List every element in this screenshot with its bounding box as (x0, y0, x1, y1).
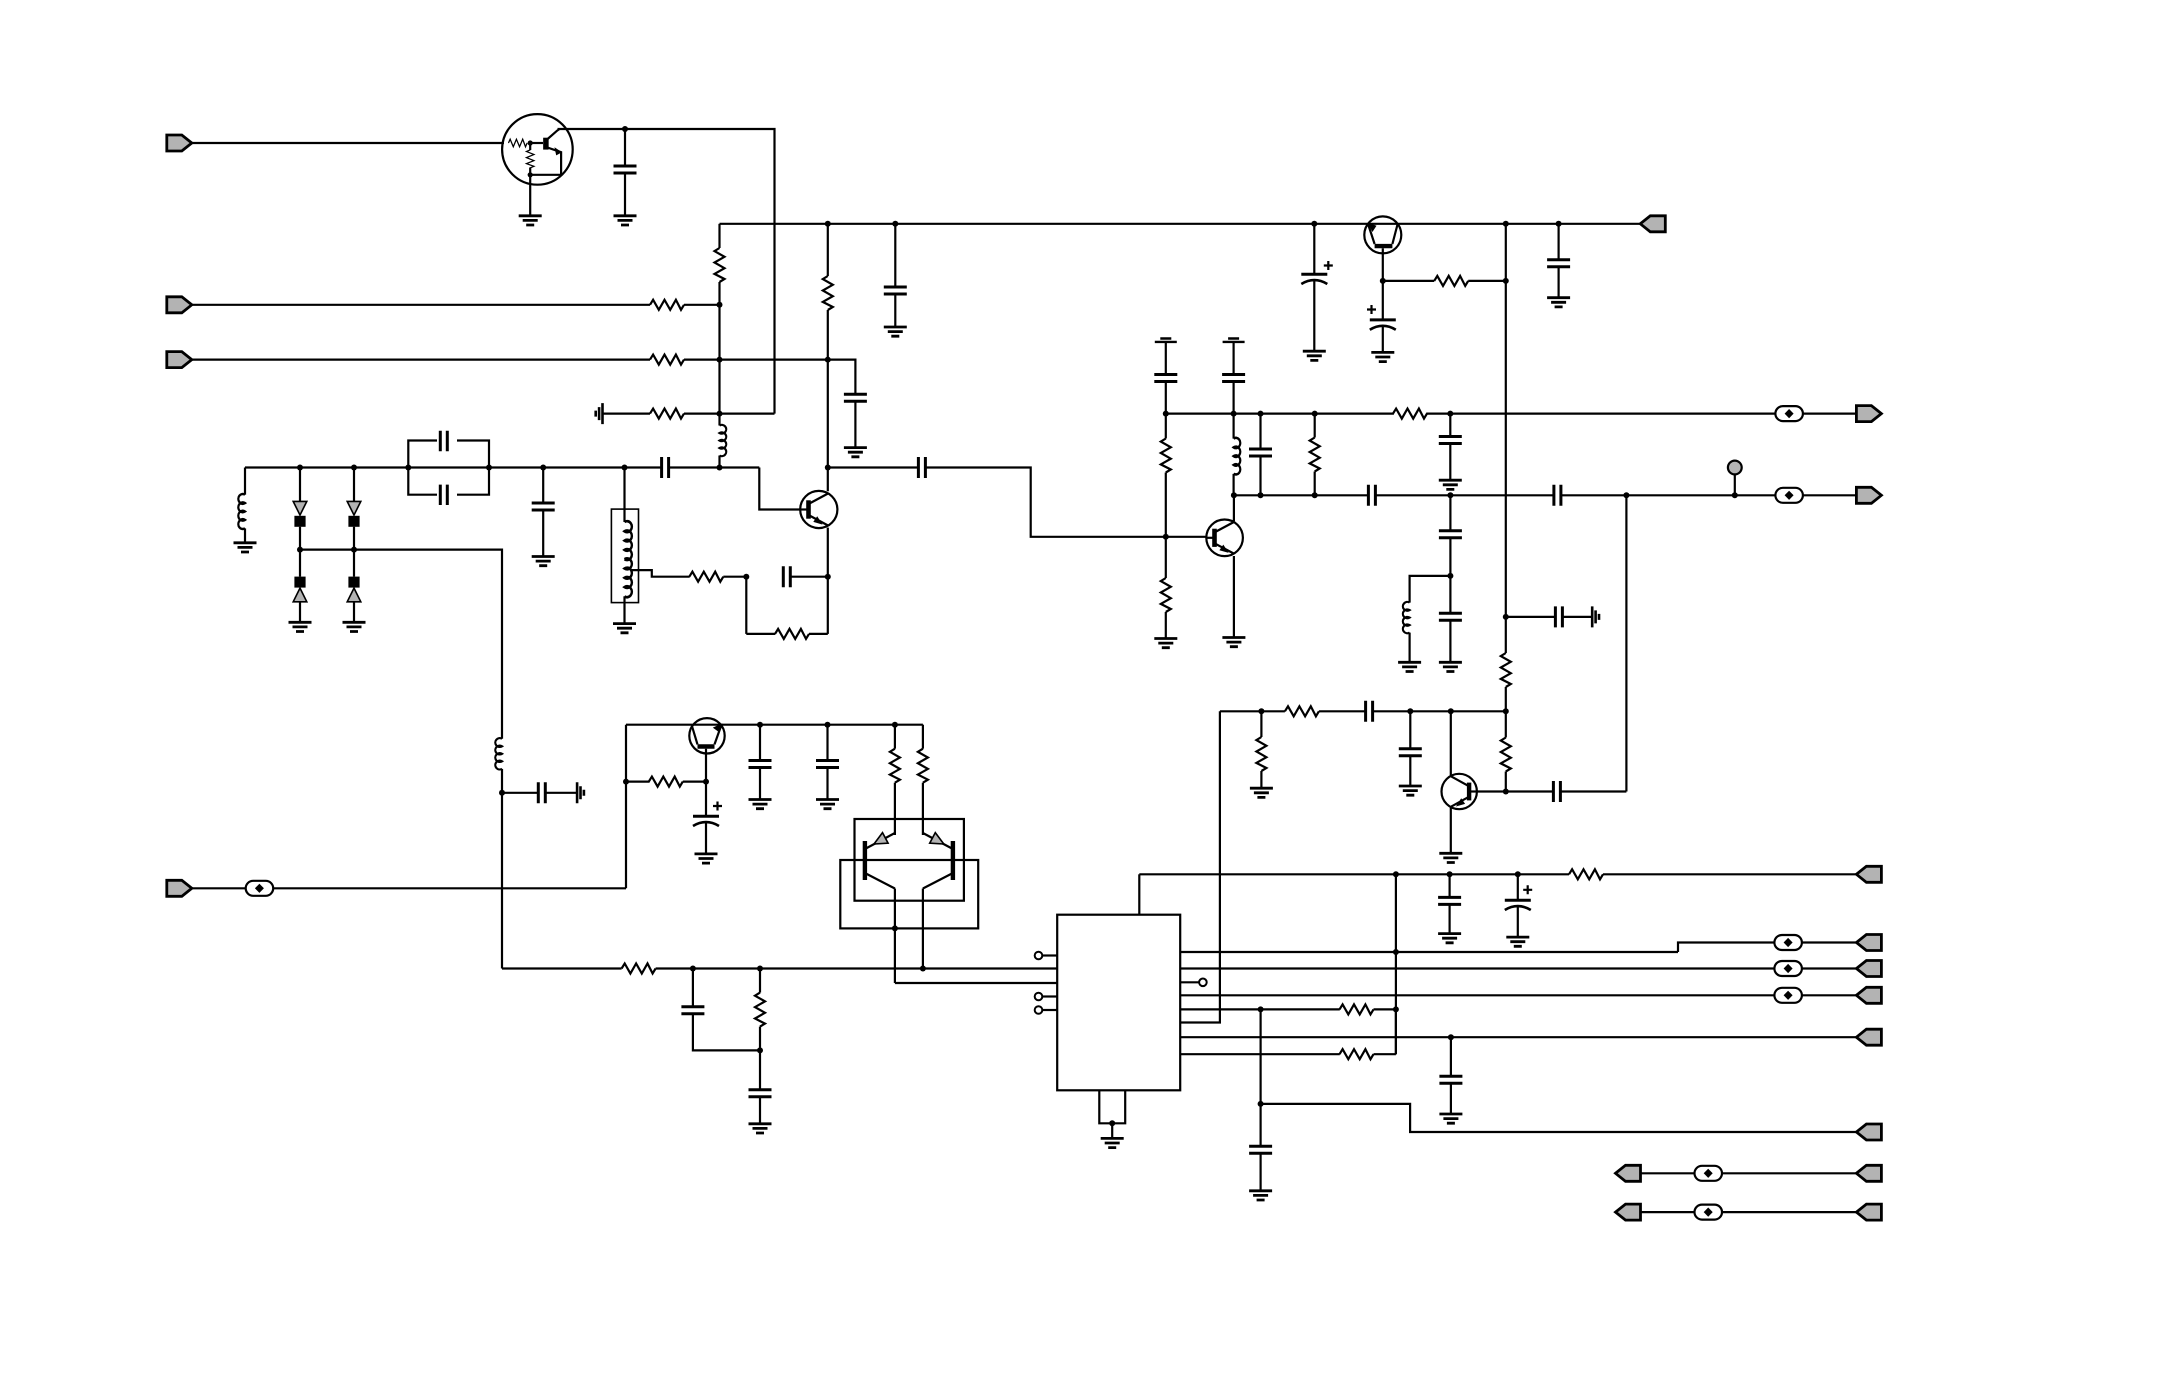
ferrite bead FB3 (246, 881, 274, 896)
transistor Q3 (NPN) (1206, 520, 1243, 557)
junction bus/main line (717, 465, 723, 471)
wire feedback RC left leg (745, 577, 747, 634)
wire to C9 (542, 468, 544, 504)
filter box (parallel capacitors C7/C8) (408, 441, 489, 495)
connector P17 (bottom row 2 right) (1856, 1204, 1881, 1220)
wire stack B to ground (353, 602, 355, 623)
capacitor C10 (series feedback) (783, 566, 790, 587)
wire R2 to bus (684, 304, 720, 306)
inductor L2 (input shunt) (238, 494, 245, 529)
resistor R2 (650, 300, 684, 310)
wire C12 to Q3 base (925, 468, 1206, 537)
junction tank inductor (622, 465, 628, 471)
wire Q5 base to divider (1477, 790, 1506, 792)
ground (stack B) (343, 622, 366, 631)
junction row A / C13 branch (1258, 411, 1264, 417)
wire Q1 emitter to ground (529, 185, 531, 216)
wire R12 to ground (1165, 612, 1167, 639)
junction row A / R9 branch (1312, 411, 1318, 417)
wire row3 bus to Q2 collector branch (720, 359, 828, 361)
wire C34 to ground (1448, 904, 1450, 933)
bias line to IC (656, 967, 1058, 969)
wire bias to R22 (759, 969, 761, 993)
wire Q6 collector down (705, 749, 707, 782)
connector P6 (output row A) (1856, 406, 1881, 422)
capacitor C31 (series) (538, 782, 545, 803)
polarized capacitor C22 (1370, 320, 1396, 330)
transistor Q1 (digital transistor with built-in resistors) (502, 114, 573, 185)
capacitor C5 (884, 287, 907, 294)
ground (R12) (1154, 639, 1177, 648)
resistor R17 (row series) (1285, 706, 1319, 716)
wire row A to R11 (1165, 414, 1167, 439)
resistor R23 (line 5) (1340, 1004, 1374, 1014)
ferrite bead FB8 (1695, 1205, 1723, 1220)
connector P4 (LO input) (167, 880, 192, 896)
wire C24 to ground stub (1562, 616, 1592, 618)
test point TP1 (1734, 475, 1736, 496)
connector P2 (input row 2) (167, 297, 192, 313)
IC bottom pins and ground (1099, 1090, 1125, 1123)
capacitor C26 (1399, 749, 1422, 756)
wire Q3 collector (1233, 495, 1235, 521)
wire row to C26 (1409, 711, 1411, 748)
wire R23 to V1 (1374, 1008, 1396, 1010)
capacitor C8 (bottom of box) (440, 485, 447, 505)
signal ground stub (C24) (1592, 606, 1599, 627)
wire to diode stack A (299, 468, 301, 502)
ferrite bead FB2 (row B) (1775, 488, 1803, 503)
capacitor C29 (749, 761, 772, 768)
ground (C28) (695, 854, 718, 863)
dual transistor outline box 1 (855, 819, 964, 901)
junction C13/row B (1258, 492, 1264, 498)
IC left pin 4 (inverted) (1043, 995, 1058, 997)
wire R22 to RC node (759, 1027, 761, 1051)
wire tuning node to C31 (502, 792, 538, 794)
wire C15 to row A (1165, 382, 1167, 414)
connector P15 (bottom row 1 right) (1856, 1165, 1881, 1181)
wire C33 to ground (759, 1097, 761, 1124)
wire to C1 (624, 129, 626, 166)
capacitor C34 (1438, 897, 1461, 904)
rail symbol (decoupling branch 1) (1155, 339, 1177, 342)
wire row A to C14 (1449, 414, 1451, 437)
junction rail/Q2 collector (825, 221, 831, 227)
transistor Q7b (right of pair) (923, 833, 953, 889)
ground (IC) (1101, 1138, 1124, 1147)
wire C38 to ground (1517, 907, 1519, 938)
ground (C1) (614, 216, 637, 225)
capacitor C14 (1439, 437, 1462, 444)
IC left pin 1 (inverted) (1043, 954, 1058, 956)
capacitor C15 (1154, 375, 1177, 382)
wire C10 to emitter (790, 576, 828, 578)
wire divider vertical upper (1505, 224, 1507, 281)
resistor R7 (feedback) (689, 572, 723, 582)
junction stack B tune node (351, 547, 357, 553)
wire bus middle (718, 282, 720, 426)
wire to R19 (894, 725, 896, 749)
resistor R12 (Q3 base bias lower) (1161, 578, 1171, 612)
resistor R19 (diff pair left) (890, 749, 900, 783)
ground (C5) (884, 327, 907, 336)
junction Q6 collector node (703, 779, 709, 785)
wire Q2 emitter (827, 528, 829, 577)
wire Q4 collector (1382, 248, 1384, 281)
ground (C38) (1506, 937, 1529, 946)
IC top pin wire (1138, 874, 1140, 914)
IC top net line (1139, 873, 1569, 875)
wire Q5 emitter to ground (1450, 808, 1452, 854)
diode D2 (varactor pair lower, stack A) (293, 577, 307, 602)
wire RC node to C33 (759, 1050, 761, 1089)
wire bias to C32 (692, 969, 694, 1007)
inductor L4 (1403, 602, 1410, 633)
junction line5/V1 (1393, 1006, 1399, 1012)
resistor R15 (divider lower) (1501, 738, 1511, 772)
wire rail symbol to C16 (1232, 342, 1234, 375)
ground (C34) (1438, 934, 1461, 943)
capacitor C9 (532, 503, 555, 510)
wire C37 node down (1259, 1104, 1261, 1146)
junction top net/V1 (1393, 871, 1399, 877)
polarized capacitor C6 (1301, 274, 1327, 284)
wire base node to R18 (626, 780, 650, 782)
connector P9 (1856, 935, 1881, 951)
junction rail/regulator divider (1503, 221, 1509, 227)
diode D4 (varactor pair lower, stack B) (347, 577, 361, 602)
junction Q3 collector/row B (1231, 492, 1237, 498)
resistor R10 (row A series) (1393, 409, 1427, 419)
capacitor C30 (816, 761, 839, 768)
wire P1 to Q1 base (192, 142, 504, 144)
wire rail to C6 (1313, 224, 1315, 274)
connector P12 (1856, 1029, 1881, 1045)
junction row A / C14 branch (1447, 411, 1453, 417)
capacitor C25 (row series) (1366, 701, 1373, 722)
wire C29 to ground (759, 768, 761, 800)
junction stack A tune node (297, 547, 303, 553)
wire P16 to FB8 (1641, 1211, 1695, 1213)
capacitor C36 (1439, 1076, 1462, 1083)
capacitor C4 (844, 394, 867, 401)
inductor L3 (Q3 collector load) (1234, 438, 1241, 475)
capacitor C16 (1222, 375, 1245, 382)
wire rail to C23 (1557, 224, 1559, 260)
wire to C29 (759, 725, 761, 761)
capacitor C32 (681, 1007, 704, 1014)
IC left pin 5 (inverted) (1043, 1009, 1058, 1011)
ground (C23) (1547, 298, 1570, 307)
resistor R21 (bias series) (622, 964, 656, 974)
wire Q1 collector node (558, 129, 775, 414)
bias line from tuning node (501, 793, 503, 969)
wire to tank inductor (623, 468, 625, 523)
wire row A to L3 (1232, 414, 1234, 439)
wire T1 bottom to ground (623, 596, 625, 623)
wire to Q2 base corner (759, 468, 800, 510)
ground (R16) (1250, 788, 1273, 797)
junction rail/C6 electrolytic (1311, 221, 1317, 227)
ground (Q1 emitter) (519, 216, 542, 225)
wire R13 to feedback vertical (1468, 280, 1506, 282)
junction Q7b/bias line (920, 966, 926, 972)
junction Q6 base resistor node (623, 779, 629, 785)
inductor L5 (tuning feed) (495, 738, 502, 769)
diode D1 (varactor pair upper, stack A) (293, 501, 307, 526)
wire P4 to FB3 (192, 887, 246, 889)
capacitor C12 (series coupling) (918, 457, 925, 478)
inductor L1 (bus) (720, 425, 727, 456)
junction node C1 top (622, 126, 628, 132)
ground (C6) (1303, 351, 1326, 360)
wire R6 to Q2 (827, 310, 829, 491)
resistor R20 (diff pair right) (918, 749, 928, 783)
ground (C29) (749, 800, 772, 809)
wire to R8 (746, 633, 775, 635)
wire FB1 to connector (1803, 413, 1857, 415)
junction Q6 line / C30 (825, 722, 831, 728)
wire P3 to R3 (192, 359, 650, 361)
wire Q2 collector to rail (827, 224, 829, 276)
wire R4 to bus (684, 413, 720, 415)
IC pin line 6 (y1022.5) (1180, 711, 1220, 1022)
tuning line to oscillator (300, 550, 502, 739)
wire L5 to tuning cap node (501, 769, 503, 793)
junction top net/C38 electrolytic (1515, 871, 1521, 877)
signal ground stub row 4 (596, 403, 603, 424)
wire FB6 to connector (1802, 994, 1857, 996)
capacitor C11 (series, main line) (662, 457, 669, 478)
junction line5/C35 branch (1258, 1006, 1264, 1012)
wire Q7a collector to IC pin (895, 982, 1057, 984)
junction tuning cap node (499, 790, 505, 796)
wire row4 to feedback vertical (720, 413, 775, 415)
wire C32 to RC node (693, 1014, 760, 1051)
junction C37 node (1258, 1101, 1264, 1107)
inductor T1 (shielded tank coil) (611, 509, 638, 602)
signal ground stub (C31) (577, 782, 584, 803)
wire LO corner up (625, 725, 627, 889)
connector P10 (1856, 961, 1881, 977)
wire stack A junction to D2 (299, 550, 301, 577)
resistor R8 (emitter degeneration) (775, 629, 809, 639)
wire Q2 collector output line (828, 466, 919, 468)
capacitor C20 (1439, 531, 1462, 538)
ground (C30) (816, 800, 839, 809)
capacitor C21 (1439, 613, 1462, 620)
junction row/C26 branch (1407, 708, 1413, 714)
transistor Q5 (NPN, mirrored) (1442, 774, 1477, 809)
resistor R9 (1310, 438, 1320, 472)
junction diode stack A (297, 465, 303, 471)
wire Q7a collector down (894, 889, 896, 984)
resistor R4 (650, 409, 684, 419)
wire C13 to row B (1259, 456, 1261, 495)
wire top net to C38 (1517, 874, 1519, 900)
resistor R16 (Q5 collector load) (1256, 737, 1266, 771)
transistor Q2 (NPN) (800, 491, 837, 528)
junction row3/bus (717, 357, 723, 363)
capacitor C18 (series, row B) (1554, 485, 1561, 506)
resistor R18 (Q6 base) (649, 777, 683, 787)
wire C22 to ground (1382, 326, 1384, 352)
transistor Q6 (PNP oscillator) (689, 718, 724, 753)
wire row A to C13 (1259, 414, 1261, 449)
IC right pin 3 (inverted) (1180, 981, 1199, 983)
capacitor C17 (series, row B) (1368, 485, 1375, 506)
ferrite bead FB7 (1695, 1166, 1723, 1181)
junction row A start (1163, 411, 1169, 417)
capacitor C24 (series) (1555, 606, 1562, 627)
junction collector/output line (825, 465, 831, 471)
wire C31 to ground stub (545, 792, 577, 794)
resistor R11 (Q3 base bias upper) (1161, 439, 1171, 473)
wire to C24 (1506, 616, 1556, 618)
wire base node to C27 (1506, 790, 1554, 792)
resistor R24 (line 8) (1340, 1049, 1374, 1059)
wire line7 to C36 (1450, 1037, 1452, 1076)
wire C30 to ground (826, 768, 828, 800)
wire R16 to ground (1260, 771, 1262, 788)
ferrite bead FB1 (row A) (1775, 406, 1803, 421)
resistor R14 (divider upper) (1501, 653, 1511, 687)
ferrite bead FB4 (1774, 935, 1802, 950)
IC pin line 1 (y952) (1180, 951, 1678, 953)
ground (L4) (1398, 662, 1421, 671)
wire left corner down (244, 468, 246, 495)
ground (C9) (532, 557, 555, 566)
junction row B / test point (1732, 492, 1738, 498)
capacitor C33 (749, 1090, 772, 1097)
wire FB8 to P17 (1722, 1211, 1856, 1213)
wire ground stub to R4 (603, 413, 651, 415)
wire C20 to node (1449, 538, 1451, 576)
resistor R6 (Q2 collector) (823, 276, 833, 310)
connector P11 (1856, 987, 1881, 1003)
wire Q3 emitter to ground (1233, 556, 1235, 638)
capacitor C7 (top of box) (440, 431, 447, 452)
junction feedback vertical top (1503, 278, 1509, 284)
junction row B / C19 branch (1623, 492, 1629, 498)
wire C21 to ground (1449, 620, 1451, 662)
wire stack B middle (353, 527, 355, 550)
wire T1 tap to R7 (631, 570, 690, 577)
junction rail/C23 (1556, 221, 1562, 227)
connector P7 (output row B) (1856, 487, 1881, 503)
wire to diode stack B (353, 468, 355, 502)
wire to Q5 collector (1450, 711, 1452, 775)
junction divider/Q5 collector row (1503, 708, 1509, 714)
IC pin line 4 (y995.3) (1180, 994, 1774, 996)
junction box right (486, 465, 492, 471)
junction rail/C5 (892, 221, 898, 227)
wire L1 to main line (718, 456, 720, 468)
wire C27 to feedback corner (1560, 790, 1626, 792)
ground (C4) (844, 448, 867, 457)
junction row/R16 branch (1258, 708, 1264, 714)
connector P14 (bottom row 1 left) (1616, 1165, 1641, 1181)
resistor R3 (650, 355, 684, 365)
polarized capacitor C38 (1505, 900, 1531, 910)
junction Q5 base node (1503, 789, 1509, 795)
wire R3 to bus (684, 359, 720, 361)
wire C5 to ground (894, 294, 896, 327)
junction bias/C32 (690, 966, 696, 972)
rail symbol (decoupling branch 2) (1223, 339, 1245, 342)
connector P3 (input row 3) (167, 352, 192, 368)
junction row B / matching network (1447, 492, 1453, 498)
connector P8 (top right net) (1856, 866, 1881, 882)
junction matching node (1447, 573, 1453, 579)
transistor Q7a (left of pair) (865, 833, 895, 889)
feedback vertical from row B (1625, 495, 1627, 791)
wire C37 to ground (1259, 1153, 1261, 1191)
junction feedback node (743, 574, 749, 580)
vertical link V1 (1395, 874, 1397, 1054)
capacitor C27 (series feedback) (1553, 781, 1560, 802)
resistor R13 (1434, 276, 1468, 286)
wire stack B junction to D4 (353, 550, 355, 577)
junction Q6 line / C29 (757, 722, 763, 728)
wire C36 to ground (1450, 1083, 1452, 1114)
capacitor C23 (1547, 260, 1570, 267)
wire C14 to ground (1449, 444, 1451, 481)
junction row/Q5 collector (1448, 708, 1454, 714)
LO line (273, 887, 626, 889)
junction Q4 collector node (1380, 278, 1386, 284)
wire L2 to ground (244, 528, 246, 542)
wire R14 to row node (1505, 687, 1507, 711)
transistor Q4 (PNP, series regulator) (1364, 216, 1401, 253)
wire divider vertical middle (1505, 281, 1507, 653)
capacitor C13 (1249, 449, 1272, 456)
wire C16 to row A (1232, 382, 1234, 414)
wire L4 to ground (1408, 633, 1410, 663)
resistor R22 (755, 993, 765, 1027)
polarized capacitor C28 (693, 816, 719, 826)
junction row A / L3 branch (1231, 411, 1237, 417)
wire to bypass cap C4 (828, 360, 856, 395)
wire bus top corner (718, 224, 720, 248)
ferrite bead FB5 (1774, 961, 1802, 976)
junction emitter/feedback (825, 574, 831, 580)
junction top net/C34 (1447, 871, 1453, 877)
wire FB5 to connector (1802, 967, 1857, 969)
ground (C36) (1439, 1114, 1462, 1123)
ground (Q5 emitter) (1439, 853, 1462, 862)
row A bias line (1166, 413, 1394, 415)
wire R19 into pair box (894, 783, 896, 835)
junction Q6 line / R19 (892, 722, 898, 728)
junction shunt cap C9 (540, 465, 546, 471)
junction line7/C36 branch (1448, 1034, 1454, 1040)
resistor R5 (bus vertical) (715, 248, 725, 282)
wire Q4 collector to C22 (1382, 281, 1384, 320)
connector P5 (supply, points left) (1640, 216, 1665, 232)
wire C6 to ground (1313, 281, 1315, 352)
wire FB2 to connector (1803, 494, 1857, 496)
wire R18 to Q6 collector node (683, 780, 706, 782)
wire R7 to node (723, 576, 746, 578)
wire C26 to ground (1409, 756, 1411, 786)
wire C28 to ground (705, 823, 707, 854)
wire P2 to R2 (192, 304, 650, 306)
ground (C22) (1371, 352, 1394, 361)
wire node to C21 (1449, 576, 1451, 613)
IC U1 (PLL synthesizer) (1057, 915, 1180, 1091)
